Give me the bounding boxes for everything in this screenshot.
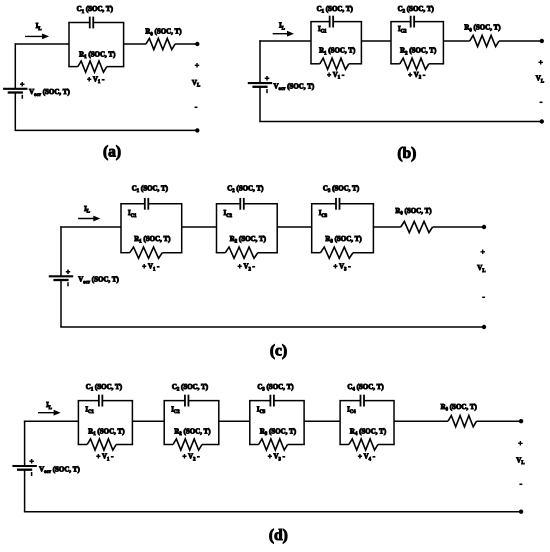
- RC block 2: capacitor C2 parallel with resistor R2 (b): [390, 5, 444, 81]
- RC block 3 left/right edges (c): [311, 204, 313, 253]
- RC block 1 left/right edges (d): [77, 401, 79, 445]
- RC block 1: capacitor C1 parallel with resistor R1 (b): [310, 5, 362, 81]
- svg-text:(d): (d): [269, 527, 288, 544]
- wire: last RC block to series resistor R0 (c): [373, 226, 400, 228]
- resistor R1 zigzag (a): [68, 66, 78, 68]
- RC block 2 left/right edges (c): [216, 204, 218, 253]
- RC block 1: capacitor C1 parallel with resistor R1 (c): [120, 184, 182, 272]
- svg-text:+: +: [518, 438, 522, 447]
- resistor R1 zigzag (b): [310, 63, 320, 65]
- capacitor C4 plates (d): [360, 395, 362, 407]
- node: negative output terminal (d): [519, 510, 523, 514]
- wire: top rail from source to first RC block (d): [24, 420, 79, 422]
- svg-text:+: +: [481, 247, 485, 256]
- wire: link between RC block 1 and 2 (b): [361, 40, 391, 42]
- resistor R2 zigzag (c): [216, 252, 226, 254]
- capacitor C1 plates (c): [144, 198, 146, 210]
- svg-text:(a): (a): [103, 144, 121, 161]
- node: positive output terminal (d): [519, 419, 523, 423]
- resistor R3 zigzag (d): [249, 444, 259, 446]
- RC block 2: capacitor C2 parallel with resistor R2 (c): [216, 184, 278, 272]
- series resistor R0 (SOC, T) (d): [441, 403, 478, 427]
- battery Vocv (SOC, T) (b): [248, 83, 272, 93]
- capacitor C3 plates (d): [269, 395, 271, 407]
- series resistor R0 (SOC, T) (a): [145, 28, 182, 50]
- capacitor C2 plates (d): [184, 395, 186, 407]
- battery Vocv (SOC, T) (d): [12, 466, 36, 476]
- RC block 2 left/right edges (b): [390, 22, 392, 64]
- capacitor C2 plates (b): [410, 16, 412, 28]
- RC block 1 left/right edges (b): [310, 22, 312, 64]
- RC block 4 left/right edges (d): [339, 401, 341, 445]
- resistor R3 zigzag (c): [311, 252, 321, 254]
- RC block 3: capacitor C3 parallel with resistor R3 (c): [311, 184, 374, 272]
- wire: bottom rail to negative terminal (b): [259, 121, 542, 123]
- RC block 1: capacitor C1 parallel with resistor R1 (d): [78, 383, 133, 462]
- current label I_L with arrow (c): [78, 205, 100, 221]
- node: negative output terminal (a): [195, 128, 199, 132]
- RC block 3 left/right edges (d): [249, 401, 251, 445]
- node: positive output terminal (c): [482, 225, 486, 229]
- wire: last RC block to series resistor R0 (d): [394, 420, 448, 422]
- RC block 3: capacitor C3 parallel with resistor R3 (d): [249, 383, 305, 462]
- wire: R0 to positive terminal (b): [499, 40, 542, 42]
- wire: battery to bottom rail (d): [24, 470, 26, 512]
- RC block 1 left/right edges (c): [120, 204, 122, 253]
- battery Vocv (SOC, T) (c): [49, 276, 73, 286]
- wire: link between RC block 1 and 2 (d): [132, 420, 164, 422]
- resistor R2 zigzag (b): [390, 63, 400, 65]
- capacitor C1 plates (d): [98, 395, 100, 407]
- resistor R1 zigzag (d): [78, 444, 88, 446]
- node: positive output terminal (b): [540, 39, 544, 43]
- wire: R0 to positive terminal (d): [477, 420, 522, 422]
- svg-text:+: +: [66, 267, 70, 276]
- capacitor C2 plates (c): [239, 198, 241, 210]
- wire: link between RC block 2 and 3 (c): [277, 226, 312, 228]
- RC block 4: capacitor C4 parallel with resistor R4 (d): [339, 383, 394, 462]
- svg-text:+: +: [265, 74, 269, 83]
- svg-text:(c): (c): [270, 343, 287, 360]
- wire: battery to bottom rail (c): [60, 280, 62, 327]
- series resistor R0 (SOC, T) (c): [395, 207, 432, 233]
- wire: left vertical from rail down to battery (b): [259, 40, 261, 83]
- wire: battery to bottom rail (b): [259, 87, 261, 122]
- RC block 1: capacitor C1 parallel with resistor R1 (a): [68, 5, 124, 85]
- RC block 2 left/right edges (d): [163, 401, 165, 445]
- wire: top rail from source to first RC block (a): [15, 43, 69, 45]
- wire: bottom rail to negative terminal (d): [24, 511, 521, 513]
- RC block 1 left/right edges (a): [68, 23, 70, 67]
- wire: link between RC block 1 and 2 (c): [182, 226, 217, 228]
- node: negative output terminal (c): [482, 325, 486, 329]
- wire: R0 to positive terminal (c): [433, 226, 484, 228]
- svg-text:+: +: [195, 61, 199, 70]
- wire: battery to bottom rail (a): [14, 93, 16, 131]
- current label I_L with arrow (b): [273, 22, 294, 37]
- current label I_L with arrow (a): [25, 22, 49, 39]
- wire: left vertical from rail down to battery (d): [24, 420, 26, 466]
- series resistor R0 (SOC, T) (b): [464, 24, 501, 47]
- wire: top rail from source to first RC block (b): [259, 40, 311, 42]
- resistor R2 zigzag (d): [163, 444, 173, 446]
- RC block 2: capacitor C2 parallel with resistor R2 (d): [163, 383, 219, 462]
- svg-text:+: +: [539, 58, 543, 67]
- svg-text:(b): (b): [397, 145, 416, 162]
- wire: bottom rail to negative terminal (c): [60, 326, 484, 328]
- wire: left vertical from rail down to battery (c): [60, 226, 62, 276]
- capacitor C1 plates (b): [329, 16, 331, 28]
- current label I_L with arrow (d): [38, 401, 61, 415]
- node: negative output terminal (b): [540, 119, 544, 123]
- svg-text:+: +: [29, 457, 33, 466]
- wire: link between RC block 2 and 3 (d): [219, 420, 250, 422]
- battery Vocv (SOC, T) (a): [3, 89, 27, 99]
- resistor R1 zigzag (c): [120, 252, 130, 254]
- wire: last RC block to series resistor R0 (a): [124, 43, 146, 45]
- wire: top rail from source to first RC block (c): [60, 226, 121, 228]
- node: positive output terminal (a): [195, 42, 199, 46]
- wire: left vertical from rail down to battery (a): [14, 43, 16, 89]
- wire: R0 to positive terminal (a): [175, 43, 197, 45]
- wire: bottom rail to negative terminal (a): [15, 129, 198, 131]
- capacitor C1 plates (a): [89, 17, 91, 29]
- capacitor C3 plates (c): [335, 198, 337, 210]
- wire: link between RC block 3 and 4 (d): [304, 420, 340, 422]
- svg-text:+: +: [20, 79, 24, 88]
- resistor R4 zigzag (d): [339, 444, 349, 446]
- wire: last RC block to series resistor R0 (b): [443, 40, 469, 42]
